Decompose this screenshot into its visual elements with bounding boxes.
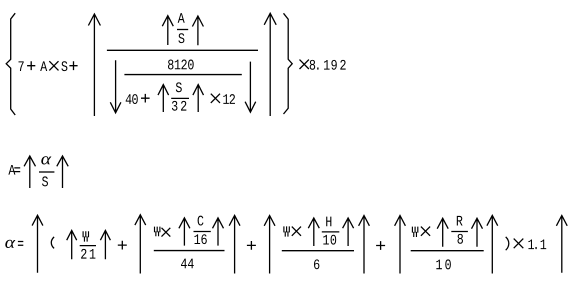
outer ceiling arrow right (tall)	[264, 13, 276, 116]
text C (numerator of C/16)	[198, 216, 204, 226]
text W (group4)	[412, 227, 417, 237]
times sign (group2)	[162, 228, 171, 237]
text 6 (denominator of group3)	[314, 259, 319, 269]
text 40 (denominator)	[126, 94, 132, 104]
right curly brace of line 1	[284, 13, 293, 114]
closing parenthesis	[506, 237, 509, 250]
ceiling arrow open of group3 (tall)	[264, 216, 275, 274]
text H (numerator of H/10)	[326, 217, 331, 227]
text 10 (denominator of H/10)	[323, 235, 329, 245]
ceiling arrow right of C/16	[213, 218, 224, 246]
text 10 (denominator of group4)	[436, 260, 442, 270]
plus sign after 40	[141, 94, 150, 103]
ceiling arrow close of group4 (tall)	[487, 215, 498, 273]
text W (numerator of W/21)	[83, 231, 88, 241]
text S (term 7+AxS+)	[61, 61, 67, 71]
left curly brace of line 1	[6, 13, 15, 115]
fraction bar H/10	[322, 231, 340, 233]
text W (group3)	[284, 226, 289, 236]
equals sign of line 3	[18, 242, 23, 246]
outer ceiling arrow of line 3 (close, tall)	[556, 216, 567, 273]
ceiling arrow right of A/S	[192, 16, 203, 45]
fraction bar S/32	[171, 97, 189, 99]
times sign after A	[49, 61, 58, 70]
plus sign after S	[69, 61, 77, 70]
text S (denominator of A/S)	[178, 33, 184, 43]
text 1.1	[528, 239, 534, 249]
fraction bar alpha/S	[39, 171, 54, 173]
ceiling arrow close of group2 (tall)	[229, 215, 240, 273]
text R (numerator of R/8)	[457, 216, 463, 226]
text 12	[223, 94, 229, 104]
ceiling arrow close of group3 (tall)	[359, 216, 370, 274]
text 8120	[168, 60, 173, 70]
ceiling arrow open of group2 (tall)	[135, 215, 146, 274]
text 7 (term 7+AxS+)	[19, 61, 24, 71]
floor arrow right (down)	[245, 62, 256, 113]
text 21 (denominator of W/21)	[81, 249, 86, 259]
ceiling arrow right of S/32	[193, 85, 204, 112]
equals sign of line 2	[14, 168, 20, 172]
plus sign between group2 and group3	[247, 241, 256, 250]
floor arrow left (down)	[110, 60, 121, 113]
text 44 (denominator of group2)	[181, 259, 187, 269]
text 8 (denominator of R/8)	[457, 234, 462, 244]
ceiling arrow left of R/8	[437, 218, 448, 247]
main fraction bar (upper)	[107, 49, 258, 51]
ceiling arrow right of W/21	[100, 230, 110, 259]
fraction bar C/16	[194, 231, 211, 233]
times sign before 8.192	[300, 60, 309, 69]
text 32 (denominator of S/32)	[172, 101, 178, 111]
text alpha (numerator)	[41, 156, 51, 164]
plus sign after 7	[27, 61, 35, 70]
ceiling arrow left of A/S	[162, 16, 173, 45]
opening parenthesis	[51, 237, 54, 249]
times sign (group3)	[292, 227, 301, 236]
ceiling arrow open of group4 (tall)	[395, 216, 406, 274]
fraction bar R/8	[451, 231, 468, 233]
inner fraction bar (lower)	[124, 74, 241, 76]
ceiling arrow right of alpha/S	[57, 156, 68, 188]
ceiling arrow left of alpha/S	[24, 156, 35, 188]
ceiling arrow left of S/32	[158, 85, 169, 112]
text A (term 7+AxS+)	[40, 61, 47, 71]
ceiling arrow left of H/10	[308, 218, 319, 246]
outer ceiling arrow of line 3 (open, tall)	[32, 215, 43, 272]
text 16 (denominator of C/16)	[195, 234, 201, 244]
times sign (group4)	[421, 227, 430, 236]
main fraction bar of group2	[154, 250, 225, 252]
main fraction bar of group4	[411, 250, 484, 252]
fraction bar A/S	[177, 29, 188, 31]
text 8.192	[310, 60, 315, 70]
text W (group2)	[155, 227, 160, 237]
text S (numerator of S/32)	[176, 82, 182, 92]
main fraction bar of group3	[282, 250, 354, 252]
plus sign between group3 and group4	[376, 241, 385, 250]
text A (numerator of A/S)	[178, 13, 185, 23]
text alpha (alpha= of line 3)	[5, 240, 15, 248]
text S (denominator)	[42, 176, 48, 186]
outer ceiling arrow left (tall)	[88, 14, 100, 116]
text A (A= of line 2)	[8, 165, 15, 175]
times sign before 1.1	[514, 239, 524, 249]
ceiling arrow left of C/16	[179, 218, 190, 246]
fraction bar W/21	[80, 245, 96, 247]
ceiling arrow left of W/21	[67, 230, 77, 259]
times sign before 12	[211, 94, 220, 103]
ceiling arrow right of R/8	[472, 218, 483, 247]
plus sign between group1 and group2	[118, 241, 127, 250]
ceiling arrow right of H/10	[343, 218, 354, 246]
